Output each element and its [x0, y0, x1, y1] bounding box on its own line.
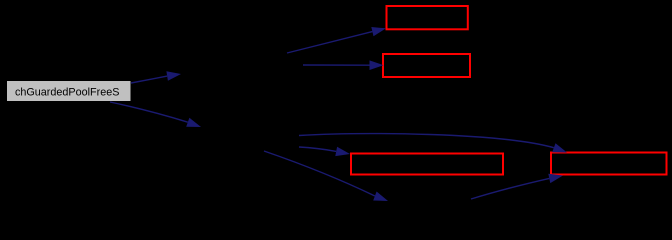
- edge B to box1: [287, 27, 386, 53]
- edge C to box4 (long curve): [299, 133, 567, 152]
- edge C to box3: [299, 147, 350, 156]
- edge A to B: [131, 71, 181, 83]
- node red box2: [383, 54, 470, 77]
- node red box1 (top): [387, 6, 468, 29]
- edge A to C: [110, 102, 201, 127]
- edge B to box2: [303, 60, 384, 70]
- node red box4 (right): [551, 153, 667, 175]
- node red box3 (middle bottom): [351, 154, 503, 175]
- edge D to box4: [471, 174, 563, 199]
- node chGuardedPoolFreeS (gray, current function): [7, 81, 132, 102]
- edge C to D: [264, 151, 388, 201]
- svg-text:chGuardedPoolFreeS: chGuardedPoolFreeS: [15, 86, 120, 98]
